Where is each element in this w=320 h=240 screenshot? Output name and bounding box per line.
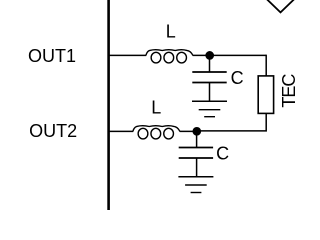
wire inductor L1 to node 1 and on to TEC top corner (193, 54, 267, 56)
capacitor C2 lead from node 2 (196, 131, 198, 147)
svg-text:TEC: TEC (279, 74, 299, 108)
net symbol diamond (cropped at top edge) (266, 0, 295, 12)
svg-text:C: C (216, 144, 229, 164)
inductor L1 (146, 50, 193, 63)
capacitor C1 lead from node 1 (209, 55, 211, 72)
wire C2 to ground 2 (196, 158, 198, 177)
junction dot node 1 (205, 51, 214, 60)
IC edge (device boundary line) (107, 0, 110, 210)
svg-text:L: L (151, 97, 161, 117)
wire OUT2 pin to inductor L2 (109, 130, 133, 132)
svg-text:C: C (231, 68, 244, 88)
inductor L2 (133, 126, 180, 139)
wire C1 to ground 1 (209, 83, 211, 102)
capacitor C1 plates (192, 71, 226, 73)
svg-text:OUT2: OUT2 (29, 121, 77, 141)
wire TEC bottom to node 2 (197, 113, 267, 130)
wire OUT1 pin to inductor L1 (109, 54, 146, 56)
wire inductor L2 to node 2 (180, 130, 197, 132)
ground 2 (178, 177, 213, 193)
TEC module (rectangle) (258, 76, 273, 114)
ground 1 (192, 101, 227, 116)
svg-text:L: L (166, 22, 176, 42)
capacitor C2 plates (179, 147, 213, 149)
wire down to TEC top (265, 55, 267, 76)
svg-text:OUT1: OUT1 (28, 46, 76, 66)
junction dot node 2 (192, 127, 201, 136)
